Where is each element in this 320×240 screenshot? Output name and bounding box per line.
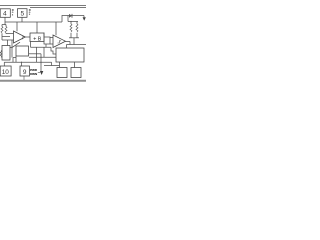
svg-text:DWN: DWN <box>30 72 38 76</box>
svg-text:5: 5 <box>20 11 24 18</box>
svg-text:10: 10 <box>2 69 10 76</box>
svg-text:+ B: + B <box>33 37 42 43</box>
svg-text:9: 9 <box>23 69 27 76</box>
svg-text:4: 4 <box>3 11 7 18</box>
